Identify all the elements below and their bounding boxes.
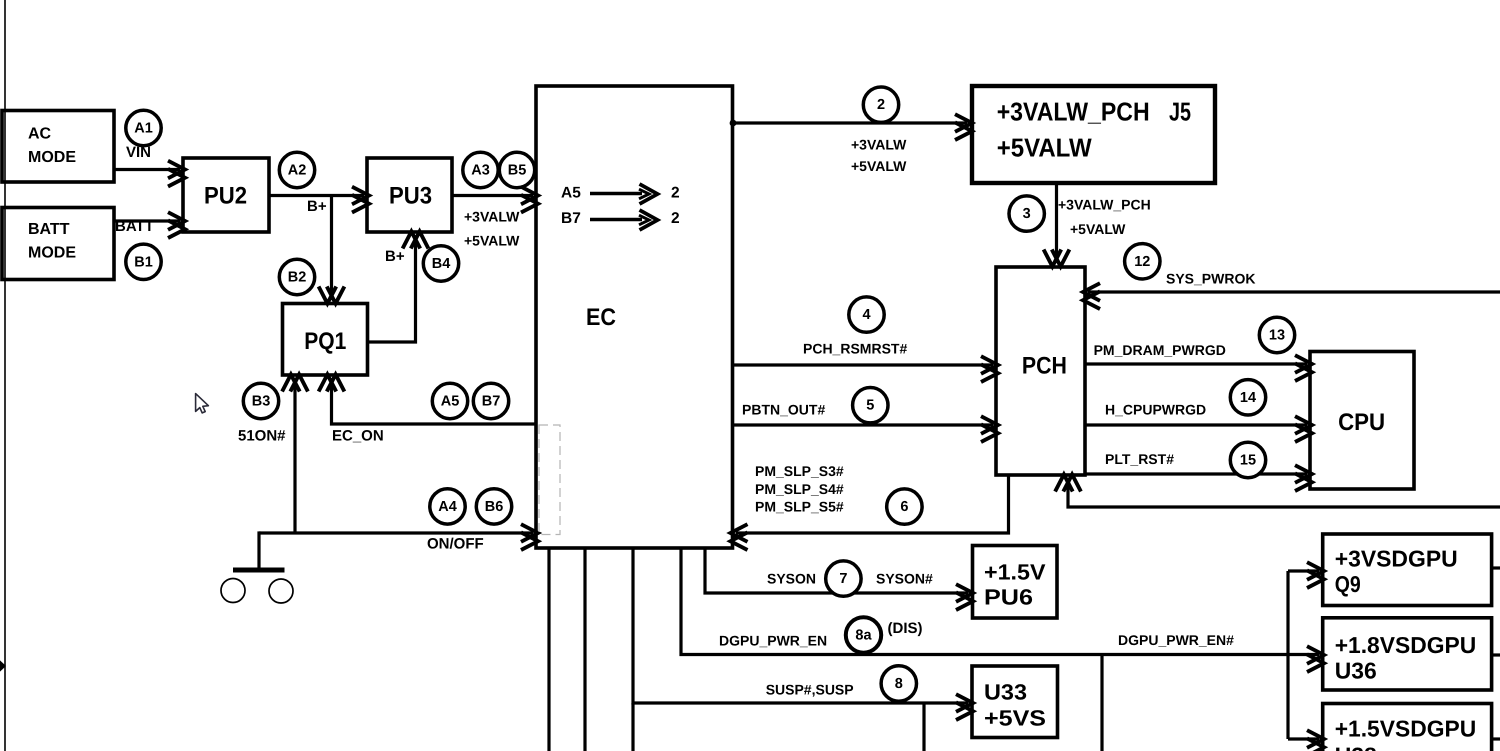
svg-text:BATT: BATT: [28, 221, 70, 238]
wire SYSON (EC to PU6): [705, 548, 973, 610]
label ON/OFF: [427, 536, 484, 553]
svg-text:J5: J5: [1169, 97, 1191, 127]
wire B+ branch down to PQ1: [319, 196, 345, 304]
ref circle A1: [126, 110, 161, 145]
svg-text:51ON#: 51ON#: [238, 428, 286, 445]
block U33 +5VS: [972, 666, 1058, 738]
wire left frame line: [4, 0, 6, 751]
svg-text:B6: B6: [485, 499, 504, 515]
svg-text:5: 5: [866, 398, 874, 414]
svg-text:U38: U38: [1335, 743, 1377, 751]
svg-text:DGPU_PWR_EN#: DGPU_PWR_EN#: [1118, 632, 1234, 648]
label BATT: [115, 218, 154, 235]
ref circle 4: [849, 297, 884, 332]
label (DIS): [888, 620, 923, 637]
label PM_SLP_S5#: [755, 499, 844, 515]
svg-text:U36: U36: [1335, 657, 1377, 683]
svg-text:Q9: Q9: [1335, 571, 1361, 597]
ref circle 3: [1009, 196, 1044, 231]
wire PM_DRAM_PWRGD (PCH to CPU): [1085, 355, 1312, 381]
label PM_SLP_S3#: [755, 463, 844, 479]
block +1.5VSDGPU U38: [1323, 704, 1492, 751]
svg-text:2: 2: [671, 210, 680, 227]
svg-text:6: 6: [900, 499, 908, 515]
ref circle 13: [1259, 317, 1294, 352]
svg-text:+5VALW: +5VALW: [851, 158, 907, 174]
wire U36 tab: [1492, 653, 1500, 656]
svg-text:B+: B+: [385, 248, 405, 265]
ref circle B3: [243, 383, 278, 418]
block PQ1: [283, 304, 368, 376]
wire DGPU branch to U38: [1288, 730, 1324, 751]
label +5VALW (to PCH): [1070, 221, 1126, 237]
wire Q9 tab: [1492, 566, 1500, 569]
ref circle A2: [279, 152, 314, 187]
label +5VALW (to J5): [851, 158, 907, 174]
component power button contact left: [221, 579, 245, 603]
wire B+ (PU2 to PU3): [269, 187, 369, 213]
node wire2 junction dot: [730, 120, 737, 127]
ref circle 7: [826, 561, 861, 596]
label VIN: [126, 144, 151, 161]
svg-text:EC: EC: [586, 304, 616, 331]
svg-text:+1.5V: +1.5V: [984, 560, 1046, 585]
node EC pin B7 row: [561, 210, 680, 230]
wire SUSP stub down right: [922, 703, 925, 751]
wire PBTN_OUT# (EC to PCH): [733, 416, 999, 442]
svg-text:+3VALW: +3VALW: [464, 209, 520, 225]
wire PLT_RST# (PCH to CPU): [1085, 465, 1312, 491]
label B+ (PU2 out): [307, 198, 327, 215]
svg-text:15: 15: [1240, 453, 1256, 469]
block +1.8VSDGPU U36: [1323, 618, 1492, 690]
label DGPU_PWR_EN: [719, 633, 827, 649]
label 51ON#: [238, 428, 286, 445]
svg-text:PU6: PU6: [984, 585, 1033, 610]
svg-text:MODE: MODE: [28, 245, 76, 262]
svg-text:A2: A2: [288, 163, 307, 179]
ref circle B6: [476, 489, 511, 524]
svg-text:+5VALW: +5VALW: [997, 133, 1092, 163]
block +3VALW_PCH J5: [972, 86, 1215, 183]
wire PCH_RSMRST# (EC to PCH): [733, 356, 999, 382]
ref circle B5: [499, 152, 534, 187]
ref circle 2: [863, 87, 898, 122]
svg-text:B7: B7: [482, 394, 501, 410]
svg-text:B7: B7: [561, 210, 581, 227]
block +3VSDGPU Q9: [1323, 534, 1492, 606]
svg-text:B+: B+: [307, 198, 327, 215]
svg-text:PM_SLP_S5#: PM_SLP_S5#: [755, 499, 844, 515]
svg-text:2: 2: [877, 97, 885, 113]
ref circle 8a: [846, 617, 881, 652]
wire EC stub 1: [547, 548, 550, 751]
svg-text:SYSON: SYSON: [767, 571, 816, 587]
svg-text:ON/OFF: ON/OFF: [427, 536, 484, 553]
svg-text:AC: AC: [28, 126, 52, 143]
ref circle 5: [853, 388, 888, 423]
ref circle 14: [1230, 380, 1265, 415]
svg-text:DGPU_PWR_EN: DGPU_PWR_EN: [719, 633, 827, 649]
svg-text:EC_ON: EC_ON: [332, 428, 384, 445]
wire power switch stem: [257, 531, 260, 570]
block CPU: [1310, 352, 1414, 490]
node off-page arrow at left edge: [0, 660, 6, 673]
svg-text:8: 8: [895, 676, 903, 692]
label SYSON#: [876, 571, 933, 587]
block PCH: [996, 267, 1085, 475]
wire +3VALW_PCH (J5 to PCH): [1044, 183, 1070, 267]
ref circle A4: [430, 489, 465, 524]
block PU3: [367, 158, 452, 232]
svg-text:7: 7: [839, 571, 847, 587]
svg-text:+1.5VSDGPU: +1.5VSDGPU: [1335, 716, 1477, 742]
label SYS_PWROK: [1166, 271, 1255, 287]
label H_CPUPWRGD: [1105, 402, 1206, 418]
ref circle B4: [423, 246, 458, 281]
svg-text:+3VSDGPU: +3VSDGPU: [1335, 545, 1458, 571]
svg-text:+5VALW: +5VALW: [1070, 221, 1126, 237]
label DGPU_PWR_EN#: [1118, 632, 1234, 648]
label PCH_RSMRST#: [803, 341, 907, 357]
wire EC stub 2: [583, 548, 586, 751]
label +3VALW (PU3 out): [464, 209, 520, 225]
svg-text:8a: 8a: [855, 628, 872, 644]
wire BATT (BATT MODE to PU2): [114, 212, 185, 238]
node EC dashed selection rect: [539, 425, 560, 535]
wire DGPU branch to Q9: [1288, 562, 1324, 588]
wire SYS_PWROK (to PCH): [1083, 283, 1500, 309]
svg-text:B5: B5: [508, 163, 527, 179]
wire DGPU_PWR_EN (EC to VSDGPU rails): [681, 548, 1324, 672]
block AC MODE: [2, 111, 114, 183]
ref circle B2: [279, 259, 314, 294]
ref circle 15: [1230, 442, 1265, 477]
wire PQ1 to PU3 B+ input: [368, 232, 429, 343]
ref circle 12: [1125, 244, 1160, 279]
label PM_SLP_S4#: [755, 481, 844, 497]
component power button contact right: [269, 579, 293, 603]
svg-text:CPU: CPU: [1338, 409, 1385, 436]
svg-text:+1.8VSDGPU: +1.8VSDGPU: [1335, 632, 1477, 658]
svg-text:+3VALW: +3VALW: [851, 136, 907, 152]
label +5VALW (PU3 out): [464, 233, 520, 249]
svg-text:2: 2: [671, 185, 680, 202]
ref circle 8: [881, 666, 916, 701]
label SYSON: [767, 571, 816, 587]
wire EC_ON (EC to PQ1): [319, 375, 536, 425]
svg-text:14: 14: [1240, 390, 1256, 406]
svg-text:12: 12: [1134, 254, 1150, 270]
svg-text:U33: U33: [984, 680, 1027, 705]
svg-text:B1: B1: [134, 254, 153, 270]
svg-text:+3VALW_PCH: +3VALW_PCH: [997, 97, 1150, 127]
wire U38 tab: [1492, 737, 1500, 740]
svg-text:A3: A3: [471, 163, 490, 179]
svg-text:B4: B4: [432, 256, 451, 272]
svg-text:PM_DRAM_PWRGD: PM_DRAM_PWRGD: [1094, 342, 1226, 358]
svg-text:A5: A5: [441, 394, 460, 410]
svg-text:H_CPUPWRGD: H_CPUPWRGD: [1105, 402, 1206, 418]
block +1.5V PU6: [973, 546, 1058, 619]
wire PLT_RST# return (right edge to PCH bottom): [1055, 475, 1500, 508]
wire H_CPUPWRGD (PCH to CPU): [1085, 416, 1312, 442]
ref circle A3: [463, 152, 498, 187]
wire +3VALW/+5VALW (PU3 to EC): [452, 187, 538, 213]
svg-text:3: 3: [1023, 206, 1031, 222]
label +3VALW (to J5): [851, 136, 907, 152]
svg-text:PU2: PU2: [204, 183, 247, 210]
svg-text:A5: A5: [561, 185, 581, 202]
svg-text:PCH_RSMRST#: PCH_RSMRST#: [803, 341, 907, 357]
label EC_ON: [332, 428, 384, 445]
wire ON/OFF (switch to EC): [259, 524, 538, 550]
svg-text:MODE: MODE: [28, 149, 76, 166]
label SUSP#,SUSP: [766, 681, 854, 697]
svg-text:B3: B3: [252, 394, 271, 410]
svg-text:+5VALW: +5VALW: [464, 233, 520, 249]
svg-text:PQ1: PQ1: [304, 328, 346, 355]
component power button plate: [233, 568, 285, 573]
wire PM_SLP_S3/S4/S5 (PCH to EC): [731, 475, 1009, 550]
label PM_DRAM_PWRGD: [1094, 342, 1226, 358]
svg-text:PU3: PU3: [389, 183, 432, 210]
svg-text:PBTN_OUT#: PBTN_OUT#: [742, 402, 825, 418]
wire SUSP#,SUSP (EC to U33): [633, 548, 973, 720]
wire 51ON# (switch to PQ1): [282, 375, 308, 534]
svg-text:PCH: PCH: [1022, 353, 1067, 380]
ref circle A5: [432, 383, 467, 418]
ref circle 6: [887, 489, 922, 524]
block PU2: [183, 158, 269, 232]
wire VIN (AC MODE to PU2): [114, 161, 185, 187]
wire SUSP stub down left: [631, 703, 634, 751]
svg-text:+5VS: +5VS: [984, 706, 1046, 731]
ref circle B1: [126, 244, 161, 279]
svg-text:+3VALW_PCH: +3VALW_PCH: [1058, 196, 1151, 212]
svg-text:PLT_RST#: PLT_RST#: [1105, 451, 1174, 467]
wire DGPU branch vertical: [1286, 571, 1289, 739]
svg-text:A4: A4: [438, 499, 457, 515]
node EC pin A5 row: [561, 184, 680, 204]
svg-text:4: 4: [862, 307, 870, 323]
svg-text:A1: A1: [134, 121, 153, 137]
svg-text:(DIS): (DIS): [888, 620, 923, 637]
svg-text:SYS_PWROK: SYS_PWROK: [1166, 271, 1255, 287]
ref circle B7: [473, 383, 508, 418]
svg-text:SUSP#,SUSP: SUSP#,SUSP: [766, 681, 854, 697]
wire DGPU tail down: [1100, 655, 1103, 751]
svg-text:13: 13: [1269, 328, 1285, 344]
label +3VALW_PCH (to PCH): [1058, 196, 1151, 212]
label B+ (PQ1 to PU3): [385, 248, 405, 265]
svg-text:SYSON#: SYSON#: [876, 571, 933, 587]
cursor pointer: [196, 394, 209, 413]
wire +3VALW/+5VALW (EC to J5): [733, 114, 973, 140]
label PBTN_OUT#: [742, 402, 825, 418]
svg-text:BATT: BATT: [115, 218, 154, 235]
svg-text:PM_SLP_S3#: PM_SLP_S3#: [755, 463, 844, 479]
svg-text:B2: B2: [288, 270, 307, 286]
block EC: [536, 86, 733, 548]
svg-text:PM_SLP_S4#: PM_SLP_S4#: [755, 481, 844, 497]
block BATT MODE: [2, 208, 114, 280]
label PLT_RST#: [1105, 451, 1174, 467]
